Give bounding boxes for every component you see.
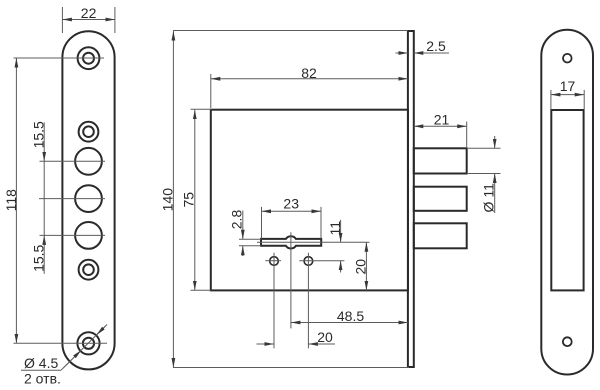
svg-text:75: 75 (181, 192, 197, 208)
svg-text:2.8: 2.8 (229, 210, 245, 230)
svg-text:82: 82 (301, 65, 317, 81)
svg-text:Ø 4.5: Ø 4.5 (24, 355, 58, 371)
svg-text:2 отв.: 2 отв. (24, 371, 61, 387)
svg-text:17: 17 (560, 78, 576, 94)
svg-text:48.5: 48.5 (337, 308, 364, 324)
svg-text:22: 22 (81, 5, 97, 21)
svg-text:21: 21 (434, 112, 450, 128)
svg-text:15.5: 15.5 (31, 244, 47, 271)
svg-text:2.5: 2.5 (426, 38, 446, 54)
svg-text:Ø 11: Ø 11 (481, 183, 497, 213)
svg-text:118: 118 (3, 189, 19, 212)
svg-text:11: 11 (327, 221, 343, 236)
svg-text:20: 20 (317, 329, 333, 345)
svg-text:23: 23 (283, 196, 299, 212)
svg-text:15.5: 15.5 (31, 121, 47, 148)
svg-text:140: 140 (159, 188, 175, 212)
svg-text:20: 20 (353, 259, 369, 275)
